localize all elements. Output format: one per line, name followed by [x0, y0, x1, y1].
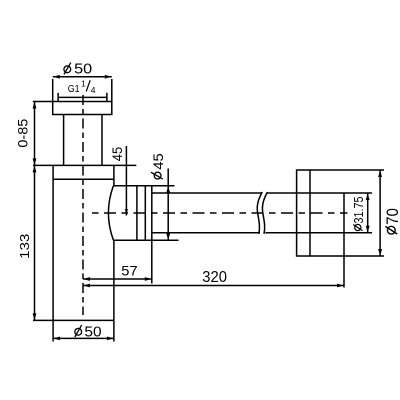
outlet nut top edge (with phi45 extension)	[113, 185, 174, 187]
dim phi50 top: dimension line	[53, 76, 112, 78]
label phi45: phi symbol	[151, 172, 163, 179]
svg-text:50: 50	[74, 61, 92, 77]
cup right wall lower	[113, 240, 115, 320]
label phi50 bottom: phi symbol	[75, 325, 82, 337]
svg-text:133: 133	[17, 234, 32, 259]
dim phi45: dimension line	[167, 169, 169, 241]
inlet flange (G1 1/4 nut)	[53, 102, 112, 115]
arrow 0-85 up	[33, 102, 37, 109]
dim phi50 top: left extension	[52, 79, 54, 102]
arrow 320 right	[337, 284, 344, 288]
svg-text:4: 4	[91, 85, 96, 95]
arrow 0-85 down	[33, 158, 37, 165]
outlet pipe top edge right of break (extends as phi31.75 ext)	[267, 192, 372, 194]
arrow phi31.75 down	[366, 226, 370, 233]
svg-text:50: 50	[84, 325, 101, 341]
label phi70: phi symbol	[385, 226, 397, 234]
svg-text:31.75: 31.75	[351, 197, 366, 224]
thread tick left	[57, 93, 59, 102]
outlet nut facet line 2	[144, 186, 146, 240]
outlet nut bottom edge (with phi45 extension)	[113, 239, 178, 241]
arrow 57 left	[83, 277, 90, 281]
outlet pipe top edge left of break	[152, 192, 262, 194]
svg-text:45: 45	[110, 147, 125, 161]
arrow phi45 down	[166, 233, 170, 240]
dim 133: dimension line	[34, 165, 36, 320]
arrow 133 up	[33, 165, 37, 172]
arrow phi50-bottom left	[53, 337, 60, 341]
outlet pipe end cap + 320 extension	[343, 193, 345, 288]
dim 57: dimension line	[83, 278, 152, 280]
dim 320: dimension line	[83, 285, 344, 287]
wall plate	[297, 170, 310, 256]
arrow 320 left	[83, 284, 90, 288]
dim 0-85: flange-top extension to left	[33, 101, 53, 103]
svg-text:1: 1	[81, 79, 86, 89]
dim phi50 bottom: left extension	[52, 320, 54, 341]
dim 0-85: dimension line	[34, 102, 36, 166]
svg-text:320: 320	[202, 269, 227, 286]
dim phi70: dimension line	[379, 170, 381, 256]
arrow phi70 down	[378, 249, 382, 256]
arrow phi31.75 up	[366, 193, 370, 200]
arrow 45 down	[125, 209, 128, 216]
dim phi50 bottom: dimension line	[53, 337, 114, 339]
svg-text:57: 57	[121, 263, 138, 279]
inlet pipe right edge	[101, 115, 103, 166]
label phi31.75: phi symbol	[353, 224, 362, 230]
phi70 bottom extension line	[310, 255, 384, 257]
pipe break S-curve left	[257, 192, 262, 234]
arrow phi50-top left	[53, 75, 60, 79]
outlet nut facet line 1	[136, 186, 138, 240]
cup bottom line (with left extension for 133 dim)	[33, 319, 114, 321]
body rim bottom line	[53, 178, 114, 180]
horizontal centerline	[92, 212, 348, 214]
svg-text:0-85: 0-85	[14, 118, 30, 147]
svg-text:G1: G1	[68, 84, 80, 95]
svg-text:70: 70	[384, 208, 400, 225]
outlet pipe bottom edge left of break	[152, 232, 260, 234]
arrow phi50-top right	[105, 75, 112, 79]
arrow phi70 up	[378, 170, 382, 177]
outlet pipe bottom edge right of break (extends as phi31.75 ext)	[265, 232, 372, 234]
vertical centerline	[82, 95, 84, 315]
thread line G1 1/4	[58, 96, 107, 98]
arrow phi45 up	[166, 186, 170, 193]
cup left wall	[52, 165, 54, 320]
nut-to-cup intersection arc	[108, 186, 113, 240]
outlet nut right edge + 57 extension line	[151, 186, 153, 284]
cup right wall upper	[113, 165, 115, 185]
phi70 top extension line	[310, 169, 384, 171]
svg-text:45: 45	[151, 153, 166, 170]
arrow phi50-bottom right	[107, 337, 114, 341]
arrow 133 down	[33, 313, 37, 320]
label phi50 top: phi symbol	[64, 63, 71, 75]
dim 45: dimension line	[125, 146, 127, 216]
inlet pipe left edge	[63, 115, 65, 166]
pipe break S-curve right	[262, 192, 267, 234]
arrow 57 right	[145, 277, 152, 281]
body rim top line (with left extension to dims and right extension to 45 dim)	[33, 164, 136, 166]
dim phi50 bottom: right extension	[113, 320, 115, 341]
dim phi50 top: right extension	[111, 79, 113, 102]
dim phi31.75: dimension line	[367, 193, 369, 233]
thread tick right	[106, 93, 108, 102]
